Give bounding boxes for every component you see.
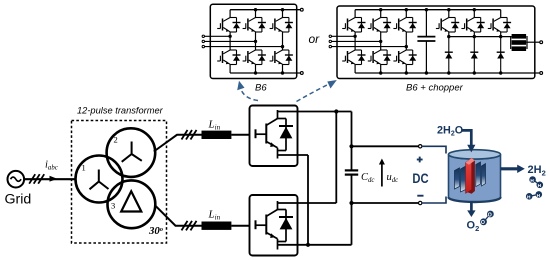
IGBT cell bottom leg x=230.1 [230, 49, 236, 51]
svg-text:H: H [527, 195, 531, 201]
capacitor C_dc plates [345, 169, 358, 171]
chopper freewheel diode x=448.8 [448, 37, 450, 73]
arrow head on grid wire [50, 176, 58, 182]
wire DC- to terminal [352, 202, 419, 204]
svg-text:2: 2 [114, 135, 118, 145]
IGBT cell bottom leg x=406.3 [406, 49, 412, 51]
converter box 2 [250, 195, 298, 256]
chopper top bus [355, 9, 501, 11]
inductor L_in top [202, 131, 232, 139]
node dot DC- [349, 201, 353, 205]
svg-text:3: 3 [111, 201, 115, 211]
chopper freewheel diodes [0, 0, 1, 1]
chopper IGBT rails [449, 10, 501, 37]
dashed box 12-pulse transformer [72, 121, 167, 244]
dc bus vertical with capacitor [351, 112, 353, 171]
chopper phase wires [332, 35, 356, 37]
arrow H2 out right [501, 167, 518, 170]
node dot junction bottom [306, 243, 310, 247]
wire winding2 to L_in top [154, 135, 202, 152]
wye symbol winding 1 [90, 170, 109, 190]
3-phase slashes [29, 174, 44, 184]
chopper phase terminals [329, 35, 331, 37]
IGBT cell bottom leg x=255.5 [256, 49, 262, 51]
electrode plate left 1 [455, 168, 460, 189]
slashes top branch [182, 130, 197, 140]
chopper terminal - [540, 72, 543, 75]
chopper bridge cells [0, 0, 1, 1]
converter box 1 [250, 106, 298, 167]
IGBT cell bottom leg x=355.1 [355, 49, 361, 51]
H2 molecule 2 [529, 194, 539, 196]
B6 terminal + [300, 8, 303, 11]
IGBT cell top leg x=255.5 [256, 17, 262, 19]
AC source Grid [8, 171, 25, 188]
electrode plate left 2 [461, 166, 466, 192]
slashes bottom branch [182, 221, 197, 231]
svg-text:B6: B6 [255, 83, 267, 94]
B6 phase node dots [228, 35, 231, 38]
arrow O2 out bottom [470, 202, 473, 211]
chopper IGBT cell x=500.7 [501, 17, 507, 19]
H2 molecule 1 [533, 180, 540, 185]
wire i_abc grid to transformer [24, 178, 76, 180]
wire DC+ to terminal [352, 145, 419, 147]
winding circle 1 [76, 156, 123, 203]
svg-text:12-pulse transformer: 12-pulse transformer [77, 106, 164, 116]
chopper terminal + [540, 41, 543, 44]
IGBT cell top leg x=282.5 [283, 17, 289, 19]
label + [417, 157, 423, 163]
chopper mid line [449, 36, 512, 38]
u_dc arrow [381, 164, 383, 187]
electrolyzer top ellipse [449, 150, 501, 159]
inductor L_in bottom [202, 222, 232, 230]
wire converter1 - output [278, 154, 309, 156]
svg-text:Grid: Grid [5, 192, 32, 208]
terminal circle + [419, 145, 422, 148]
IGBT cell top leg x=230.1 [230, 17, 236, 19]
B6+chopper box [337, 6, 535, 79]
chopper bus dots bottom [379, 71, 382, 74]
wire converter1 + output [278, 111, 352, 113]
wire converter2 - output [278, 244, 352, 246]
IGBT T2 with diode [256, 201, 294, 250]
B6 legs rails [230, 10, 282, 73]
chopper freewheel diode x=500.7 [500, 37, 502, 73]
dashed arrow to B6 [241, 88, 259, 101]
B6 bottom bus [230, 72, 301, 74]
IGBT cell top leg x=406.3 [406, 17, 412, 19]
navy wire + to electrolyzer [422, 146, 446, 153]
chopper output inductor [512, 34, 526, 51]
IGBT cell bottom leg x=282.5 [283, 49, 289, 51]
IGBT cell top leg x=355.1 [355, 17, 361, 19]
label minus [417, 195, 423, 197]
dc-link capacitor in chopper [425, 10, 427, 37]
svg-text:O: O [488, 212, 492, 218]
terminal circle - [419, 201, 422, 204]
electrode plate right 1 [476, 162, 481, 187]
wire L_in to converter 2 [231, 225, 249, 227]
svg-text:H: H [530, 178, 534, 184]
IGBT cell bottom leg x=380.7 [381, 49, 387, 51]
IGBT cell top leg x=380.7 [381, 17, 387, 19]
electrode plate red center [466, 158, 475, 194]
svg-text:H: H [537, 193, 541, 199]
chopper freewheel diode x=474.3 [473, 37, 475, 73]
wire L_in to converter 1 [231, 134, 249, 136]
wye symbol winding 2 [122, 142, 142, 162]
svg-text:2H2O: 2H2O [437, 124, 463, 137]
chopper phase node dots [353, 35, 356, 38]
navy wire - to electrolyzer [422, 197, 446, 204]
wire vertical link to converter2 - [307, 155, 309, 245]
winding circle 2 [107, 128, 156, 177]
wire vertical link to converter2 + [335, 112, 337, 204]
B6 top bus [230, 9, 301, 11]
chopper bottom bus [355, 72, 540, 74]
B6 phase terminals [202, 35, 204, 37]
node dot DC+ [349, 144, 353, 148]
chopper IGBT cell x=474.3 [474, 17, 480, 19]
B6 phase wires [205, 35, 231, 37]
svg-text:DC: DC [412, 170, 428, 186]
chopper bus dots top [379, 8, 382, 11]
svg-text:1: 1 [82, 163, 86, 173]
O2 molecule [484, 214, 491, 222]
svg-text:or: or [309, 32, 321, 46]
wire converter2 + output [278, 202, 337, 204]
IGBT T1 with diode [256, 110, 294, 159]
electrode plate right 2 [482, 164, 486, 187]
winding circle 3 [107, 180, 155, 228]
B6 terminal - [300, 72, 303, 75]
svg-text:H: H [538, 183, 542, 189]
chopper bridge rails [355, 10, 406, 73]
dashed arrow to B6+chopper [297, 85, 329, 102]
svg-text:B6 + chopper: B6 + chopper [406, 83, 464, 94]
chopper IGBT cell x=448.8 [449, 17, 455, 19]
delta symbol winding 3 [121, 191, 141, 211]
arrow 2H2O into cell [462, 130, 472, 145]
small IGBT cells [217, 18, 511, 74]
B6 box [210, 4, 296, 78]
electrolyzer cylinder body [449, 154, 501, 202]
B6 IGBT cells [0, 0, 1, 1]
node dot junction top [334, 109, 338, 113]
svg-text:O: O [481, 220, 485, 226]
wire winding3 to L_in bottom [155, 205, 202, 225]
B6 bus dots [254, 8, 257, 11]
